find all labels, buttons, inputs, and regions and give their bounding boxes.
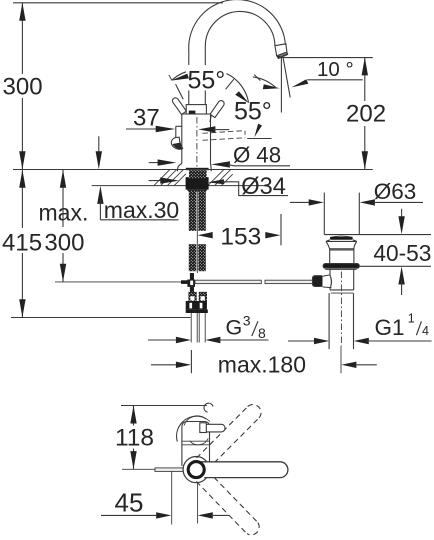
drain pop-up plug dome [330,236,352,237]
socket arc in body [330,275,332,288]
dashed lever (side position) upper line [203,131,245,134]
svg-text:48: 48 [256,142,281,167]
dimension max30 lower arrow + leader [97,186,103,204]
counter bottom line [92,185,269,187]
small bottom arc [190,438,208,444]
handle front hook [171,137,182,149]
body foot flare right [210,164,213,172]
spout arm (top view) [196,462,288,478]
svg-text:max.30: max.30 [104,197,179,223]
bottom reference line 415 [11,317,191,319]
drain tailpipe [328,293,330,349]
body centerline (dash-dot) [196,117,198,169]
55deg right arc [227,74,249,103]
threaded shank lower section [189,244,197,271]
dimension line 300 (above counter) [21,3,23,74]
dimension max30 upper arrow [98,136,100,153]
lower extension line [122,468,155,470]
cap reference line [324,234,431,236]
top extension line [121,405,207,407]
svg-text:153: 153 [220,224,261,251]
cartridge cap [186,105,206,114]
pop-up rod right segment [265,280,313,283]
55deg right leader arrow [254,124,262,138]
svg-text:Ø63: Ø63 [374,179,417,204]
threaded shank upper section [189,190,197,231]
plug top dark band [330,237,353,240]
rod coupling block [187,280,195,287]
svg-text:3: 3 [243,313,251,329]
spout collar dark ring [188,462,204,478]
svg-text:55°: 55° [188,67,226,95]
handle front stem [175,126,177,139]
svg-text:Ø34: Ø34 [241,174,286,200]
vertical 0deg line from tip [280,58,282,113]
dimension line 202 [364,57,366,101]
counter top line [13,169,373,171]
svg-text:40-53: 40-53 [373,240,431,266]
dimension 37 arrow [126,128,158,130]
dashed swivel arm up-right [197,405,262,470]
spout riser left line [188,51,190,65]
pop-up rod left segment [195,280,261,283]
dimension line max 415 (below counter) [21,170,23,228]
dimension max.180 [151,364,178,366]
153 extension line (spout axis) [280,214,282,245]
shank section in counter hole [189,170,207,178]
dimension Ø34 left arrow [149,180,166,182]
drain: Ø63 extension lines [323,193,325,235]
svg-text:118: 118 [115,425,154,452]
arrow at centerline (right of body) [198,126,215,132]
spout inner arc [205,11,275,46]
left tilted lever (55 deg position) [172,98,186,115]
svg-text:G: G [226,316,243,340]
svg-text:300: 300 [3,74,43,101]
left lever axis extension [176,84,184,99]
pull rod (top view) [155,468,183,472]
svg-text:max.: max. [39,200,89,226]
grip bar (top view) [203,424,225,432]
counter hatching right [208,170,233,186]
body outer circle [183,457,209,483]
svg-text:202: 202 [346,101,386,128]
45 extension line left [171,472,173,525]
dimension G3/8 arrows [148,339,178,341]
flange lower line [325,268,356,270]
drain upper body [330,249,354,264]
svg-text:1: 1 [408,312,415,326]
45 extension line right (centerline) [197,483,199,524]
55deg reference segment [247,138,271,140]
svg-text:8: 8 [258,325,266,341]
dimension 118 [133,406,135,426]
dimension Ø63 arrows [290,201,309,203]
spout outer arc [189,0,286,51]
rod link piece [181,280,188,284]
right tilted lever (55 deg position) [210,101,224,118]
grip block [200,423,207,433]
svg-text:300: 300 [44,230,84,257]
body foot flare left [178,164,182,172]
drain centerline [340,272,342,347]
inner arc [184,416,206,426]
G3/8 connection nuts [188,292,196,301]
reference line 300 / rod level [55,281,181,283]
right lever axis extension [226,79,234,89]
dashed swivel arm down-right [196,471,259,535]
handle base lines [182,440,210,442]
svg-text:45: 45 [115,488,144,518]
aerator band at spout tip [275,44,287,56]
body square (top view) [182,422,210,467]
top reference line (spout height level) [13,2,223,4]
rod coupling lower pin [190,287,194,293]
55deg left arc [172,72,186,80]
pop-up rod knob [313,276,324,287]
svg-text:max.180: max.180 [218,352,306,378]
label Ø48 with leader [228,165,290,166]
dimension 45 [101,514,158,516]
pull rod in shank gap [196,189,198,273]
counter hatching left [154,170,186,186]
dimension line 300 (below counter) [62,170,64,227]
G3/8 nut body [186,301,207,309]
flange reference line [359,265,431,267]
handle sweep arc [177,416,197,441]
spout tip wedge (outlet) [277,52,288,58]
grip end curl [204,403,213,412]
spout tip reference line [278,57,373,59]
svg-text:Ø: Ø [233,142,250,167]
10deg leader line with arrow [307,79,363,81]
svg-text:415: 415 [2,230,42,257]
mounting washer dark bar under base [186,177,209,189]
base gasket dark bar [186,168,209,170]
mounting nut below counter [187,190,207,192]
dimension Ø48 arrows [149,162,162,164]
dimension G1 1/4 arrows [288,340,316,342]
far right extension segment [254,75,260,81]
dashed lever end cap [244,131,246,138]
dimension 153 arrows [198,232,213,238]
right lever shaft line [210,116,211,123]
svg-text:G1: G1 [375,315,405,340]
rod socket [323,275,331,288]
drain lower body [329,269,331,290]
svg-text:4: 4 [422,324,429,338]
dimension Ø34 right arrow + elbow leader [208,179,225,184]
body outline [182,113,211,115]
svg-text:55°: 55° [234,98,272,126]
10deg arc from left [253,77,276,87]
rod coupling upper pin [190,273,194,280]
svg-text:10 °: 10 ° [317,58,354,81]
drain flange (dark) [323,264,359,269]
dimension 40-53 [401,209,403,221]
plug disc [326,240,357,242]
dashed lever lower line [203,138,245,141]
G3/8 nut flange [186,309,208,313]
10deg stream line [283,58,290,97]
cap black notch [189,111,196,114]
spout riser right line [204,47,206,66]
connection hoses [190,313,192,343]
svg-text:37: 37 [133,105,160,132]
